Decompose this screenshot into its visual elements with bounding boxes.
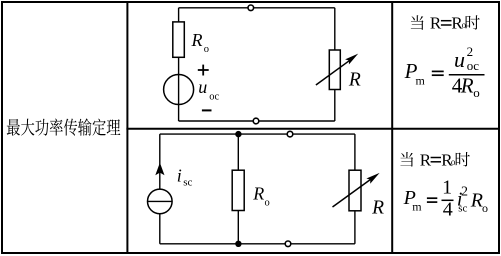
svg-text:m: m [412,199,422,213]
row header text 最大功率传输定理 [7,118,121,135]
svg-text:o: o [204,44,209,55]
header char 传 [64,119,77,136]
table divider between circuit column and formula column [391,2,393,253]
formula isc squared (bottom cell) [457,185,468,215]
condition text Ro (bottom cell) [441,150,456,169]
svg-text:R: R [191,30,203,50]
wire bottom side (bottom circuit) [160,243,355,245]
condition char 时 (bottom cell) [456,152,470,166]
formula equals sign (top cell) [432,71,444,75]
minus polarity mark [202,109,212,111]
svg-text:R: R [252,183,264,203]
terminal node a (top circuit) [248,5,254,11]
svg-text:o: o [265,197,270,208]
voltage source uoc circle [164,75,194,105]
header char 输 [78,118,91,135]
wire right branch (bottom circuit) [354,134,356,244]
wire right branch (top circuit) [334,8,336,121]
label isc [177,166,193,189]
junction node bottom (bottom circuit) [235,241,241,247]
table divider between header column and circuit column [126,2,128,253]
terminal node a (bottom circuit) [287,131,293,137]
header char 定 [93,119,106,136]
table row divider [126,128,498,130]
variable resistor arrow head (bottom circuit) [366,173,379,184]
header char 率 [50,118,63,135]
formula denominator 4Ro (top cell) [452,73,480,100]
svg-text:i: i [177,166,182,186]
svg-text:R: R [420,150,432,169]
variable resistor arrow head (top circuit) [345,54,358,65]
variable resistor arrow shaft (top circuit) [316,60,350,85]
formula numerator uoc squared (top cell) [454,44,479,73]
wire left branch (bottom circuit) [159,134,161,244]
svg-text:R: R [460,73,474,97]
header char 理 [107,119,121,135]
formula Pm (bottom cell) [403,187,423,213]
svg-text:R: R [371,197,384,218]
resistor Ro body (bottom circuit) [232,170,244,210]
variable resistor R body (top circuit) [329,50,340,90]
terminal node b (top circuit) [253,118,259,124]
current direction arrow head [155,163,164,176]
svg-text:oc: oc [209,92,219,103]
label uoc [198,77,219,103]
svg-text:o: o [451,157,456,167]
condition text Ro (top cell) [451,14,466,33]
formula equals sign (bottom cell) [427,198,437,202]
svg-text:oc: oc [467,58,480,73]
wire top side (bottom circuit) [160,133,355,135]
svg-text:R: R [348,70,361,91]
wire bottom side (top circuit) [179,120,335,122]
header char 功 [35,119,48,136]
svg-text:2: 2 [461,185,468,200]
formula fraction bar (top cell) [449,74,485,76]
svg-text:4: 4 [443,199,453,221]
svg-text:m: m [416,73,426,87]
terminal node b (bottom circuit) [285,241,291,247]
condition char 当 (bottom cell) [400,152,413,167]
svg-text:u: u [454,47,465,72]
formula fraction one quarter (bottom cell) [442,177,454,221]
formula Pm (top cell) [404,59,426,88]
svg-text:R: R [430,14,442,33]
condition equals sign (top cell) [441,21,452,25]
formula Ro (bottom cell) [470,190,488,215]
variable resistor R body (bottom circuit) [349,170,361,211]
label Ro (top circuit) [191,30,210,55]
current source isc circle [148,189,173,214]
svg-text:sc: sc [183,176,192,188]
wire left branch (top circuit) [178,8,180,121]
variable resistor arrow shaft (bottom circuit) [333,179,372,207]
condition equals sign (bottom cell) [431,158,441,162]
header char 大 [21,119,34,136]
svg-text:1: 1 [442,177,452,199]
label Ro (bottom circuit) [252,183,269,208]
header char 最 [7,119,20,136]
wire middle branch (bottom circuit) [237,134,239,244]
condition char 时 (top cell) [466,15,480,29]
svg-text:2: 2 [467,44,474,59]
wire top side (top circuit) [179,7,335,9]
condition char 当 (top cell) [411,15,424,30]
svg-text:u: u [198,77,207,97]
svg-text:o: o [482,201,488,215]
svg-text:sc: sc [458,202,467,214]
junction node top (bottom circuit) [235,131,241,137]
resistor Ro body (top circuit) [173,22,185,57]
plus polarity mark [198,65,209,76]
svg-text:o: o [473,85,480,100]
